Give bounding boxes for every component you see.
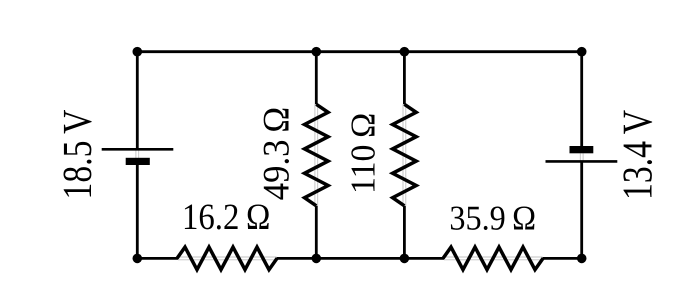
wire right branch lower (580, 161, 583, 258)
node dot bottom branch B (400, 254, 410, 264)
svg-text:18.5 V: 18.5 V (55, 110, 100, 200)
resistor R2 35.9 ohm faint underlay (444, 257, 543, 260)
resistor R2 35.9 ohm zigzag (443, 247, 543, 270)
node dot top branch A (312, 47, 322, 57)
resistor R4 110 ohm faint underlay (403, 104, 406, 206)
node dot top-right (577, 47, 587, 57)
node dot top-left (133, 47, 143, 57)
wire right branch upper (580, 52, 583, 147)
node dot bottom-right (577, 254, 587, 264)
wire top rail (137, 50, 581, 53)
svg-text:49.3 Ω: 49.3 Ω (256, 107, 297, 200)
battery V1 faint underlay (136, 149, 139, 158)
resistor R1 16.2 ohm zigzag (177, 247, 277, 270)
wire bottom middle segment (277, 257, 445, 260)
node dot bottom-left (133, 254, 143, 264)
resistor R4 110 ohm zigzag (393, 104, 417, 206)
svg-text:13.4 V: 13.4 V (615, 110, 662, 200)
svg-text:110 Ω: 110 Ω (345, 113, 383, 194)
resistor R3 49.3 ohm zigzag (305, 104, 329, 206)
battery V2 long plate (positive) (546, 160, 618, 163)
battery V1 long plate (positive) (102, 148, 174, 151)
node dot top branch B (400, 47, 410, 57)
wire middle branch B upper (403, 52, 406, 105)
wire bottom left segment (137, 257, 178, 260)
battery V2 short thick plate (negative) (570, 146, 594, 153)
wire middle branch A upper (315, 52, 318, 105)
wire bottom right segment (543, 257, 582, 260)
svg-text:35.9 Ω: 35.9 Ω (449, 198, 536, 237)
wire middle branch A lower (315, 206, 318, 259)
wire left branch lower (136, 165, 139, 259)
battery V2 faint underlay (580, 153, 583, 161)
svg-text:16.2 Ω: 16.2 Ω (182, 197, 270, 238)
resistor R1 16.2 ohm faint underlay (178, 257, 277, 260)
resistor R3 49.3 ohm faint underlay (315, 104, 318, 206)
battery V1 short thick plate (negative) (126, 158, 150, 165)
wire left branch upper (136, 52, 139, 150)
node dot bottom branch A (312, 254, 322, 264)
wire middle branch B lower (403, 206, 406, 259)
